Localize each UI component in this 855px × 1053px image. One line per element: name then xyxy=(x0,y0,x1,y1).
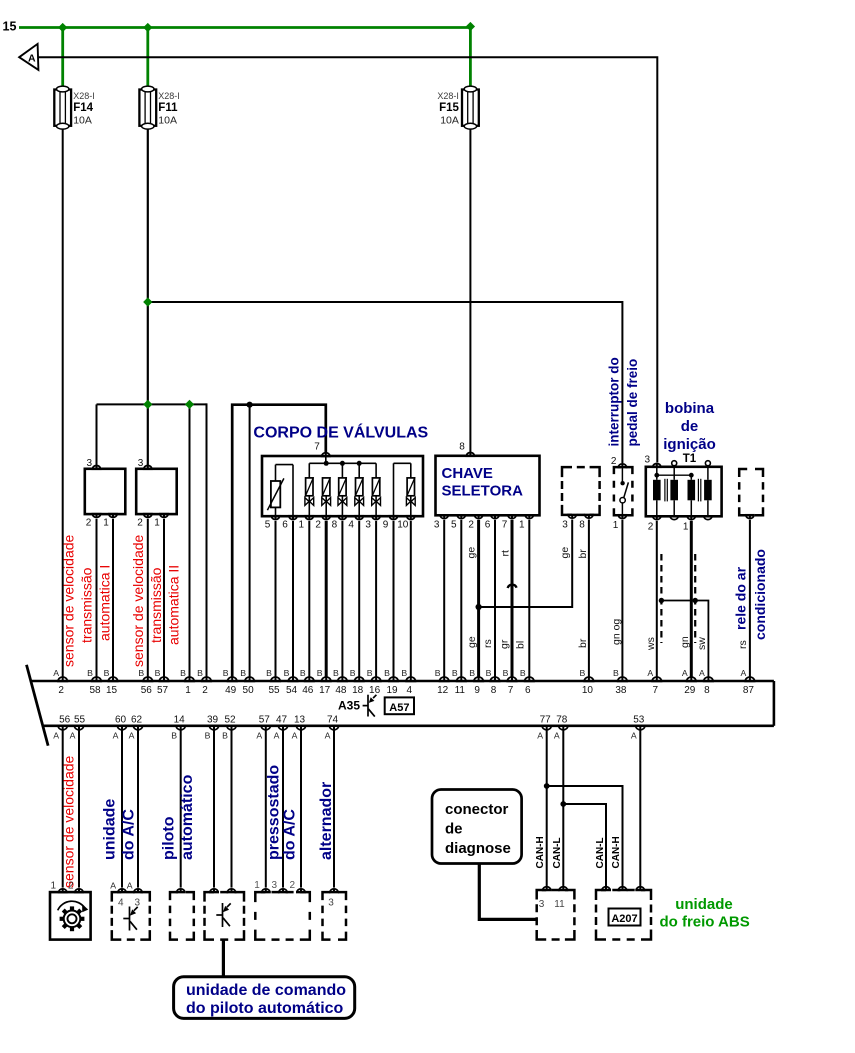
svg-text:14: 14 xyxy=(174,714,186,725)
terminal a of piloto box 2 xyxy=(210,889,218,892)
svg-text:8: 8 xyxy=(704,685,710,696)
svg-text:2: 2 xyxy=(315,520,321,531)
svg-text:A: A xyxy=(292,731,298,741)
svg-text:B: B xyxy=(435,668,441,678)
junction: bus/F11 xyxy=(143,23,152,32)
ECU pin A78 (bottom row) xyxy=(559,726,568,730)
svg-text:B: B xyxy=(266,668,272,678)
selector switch pin 3 (bottom) xyxy=(440,515,448,518)
valve body pin 1 (bottom) xyxy=(305,516,313,519)
ECU pin B16 (top row) xyxy=(372,677,381,681)
pin 1 of sensor II xyxy=(160,514,168,517)
coil pin 1 (bottom) xyxy=(687,516,695,519)
svg-text:A: A xyxy=(631,731,637,741)
wire: ECU to A/C pressure switch pin 2 xyxy=(300,731,302,888)
wire: ECU to ABS unit xyxy=(639,731,641,888)
wire: valve body pin 5 to ECU B55 xyxy=(275,521,277,677)
junction: bus/valve N2 xyxy=(324,461,329,466)
svg-text:1: 1 xyxy=(519,520,525,531)
svg-text:B: B xyxy=(223,668,229,678)
svg-text:60: 60 xyxy=(115,714,127,725)
solenoid valve 2 in valve body xyxy=(322,477,331,516)
svg-text:46: 46 xyxy=(302,685,314,696)
ECU pin B55 (top row) xyxy=(271,677,280,681)
diagnostic connector box (dashed) xyxy=(537,890,575,940)
wire: valve body pin 1 to ECU B46 xyxy=(308,521,310,677)
pin 3 of sensor I xyxy=(93,466,101,469)
svg-text:B: B xyxy=(384,668,390,678)
svg-text:unidade: unidade xyxy=(102,799,119,860)
ECU pin B17 (top row) xyxy=(322,677,331,681)
svg-text:18: 18 xyxy=(352,685,364,696)
svg-text:87: 87 xyxy=(743,685,755,696)
svg-text:5: 5 xyxy=(451,520,457,531)
ECU pin B57 (top row) xyxy=(159,677,168,681)
svg-text:2: 2 xyxy=(468,520,474,531)
wire: drop to ECU pin B1 xyxy=(189,404,191,677)
svg-text:B: B xyxy=(333,668,339,678)
fuse F14 10A X28-I xyxy=(54,86,94,129)
ECU pin A2 (top row) xyxy=(58,677,67,681)
speed sensor pin 2 xyxy=(75,889,83,892)
coil pin 3 (top) xyxy=(653,464,661,467)
ECU pin B38 (top row) xyxy=(618,677,627,681)
valve body pin 4 (bottom) xyxy=(355,516,363,519)
svg-text:F14: F14 xyxy=(73,102,93,114)
svg-text:12: 12 xyxy=(437,685,449,696)
svg-text:automatica II: automatica II xyxy=(166,565,182,645)
wire: F15 output down to selector switch pin 8 xyxy=(469,129,471,453)
svg-text:7: 7 xyxy=(508,685,514,696)
svg-text:3: 3 xyxy=(86,458,92,469)
svg-text:2: 2 xyxy=(202,685,208,696)
svg-text:3: 3 xyxy=(328,898,334,909)
connector (dashed) pins 3/8 xyxy=(562,467,600,515)
valve body pin 2 (bottom) xyxy=(322,516,330,519)
svg-text:57: 57 xyxy=(259,714,271,725)
svg-text:3: 3 xyxy=(271,880,277,891)
svg-text:B: B xyxy=(205,731,211,741)
junction: bus/valve N3 xyxy=(340,461,345,466)
valve body pin 7 (top) xyxy=(322,453,330,456)
wire: selector switch pin 5 to ECU B11 xyxy=(460,520,462,677)
unidade de comando do piloto automatico label box xyxy=(174,977,355,1019)
svg-text:7: 7 xyxy=(314,442,320,453)
ECU pin A87 (top row) xyxy=(745,677,754,681)
svg-text:B: B xyxy=(469,668,475,678)
ignition coil T1 box xyxy=(646,467,722,517)
svg-text:rt: rt xyxy=(500,550,512,556)
svg-text:B: B xyxy=(104,668,110,678)
wire: from arrow A to ignition coil pin 3 xyxy=(38,57,657,462)
svg-text:gr: gr xyxy=(499,639,511,649)
svg-text:52: 52 xyxy=(224,714,236,725)
svg-text:F15: F15 xyxy=(439,102,459,114)
selector switch pin 8 (top) xyxy=(466,453,474,456)
svg-text:17: 17 xyxy=(319,685,331,696)
svg-text:2: 2 xyxy=(58,685,64,696)
wire: valve body pin 10 to ECU B4 xyxy=(410,521,412,677)
svg-text:transmissão: transmissão xyxy=(148,567,164,643)
svg-text:A: A xyxy=(110,881,116,891)
svg-text:19: 19 xyxy=(386,685,398,696)
wire: ECU to diagnostic CAN-L xyxy=(562,731,564,888)
svg-text:A35: A35 xyxy=(338,699,360,713)
measuring symbol in piloto box xyxy=(216,903,230,927)
coil HT terminal b xyxy=(705,461,710,466)
ECU pin A13 (bottom row) xyxy=(296,726,305,730)
selector switch pin 6 (bottom) xyxy=(491,515,499,518)
valve body pin 6 (bottom) xyxy=(289,516,297,519)
svg-text:pressostado: pressostado xyxy=(266,765,283,860)
svg-text:br: br xyxy=(577,638,589,648)
junction (green): F11/sensor bus xyxy=(143,400,152,409)
pin 3 of sensor II xyxy=(144,466,152,469)
svg-text:sensor de velocidade: sensor de velocidade xyxy=(130,534,146,667)
selector switch pin 5 (bottom) xyxy=(457,515,465,518)
ECU pin B58 (top row) xyxy=(92,677,101,681)
wire: ECU to A/C unit pin 4 xyxy=(121,731,123,888)
svg-text:B: B xyxy=(171,731,177,741)
svg-text:7: 7 xyxy=(502,520,508,531)
solenoid valve 6 (pins 9-10) in valve body xyxy=(394,463,416,516)
svg-text:F11: F11 xyxy=(158,102,178,114)
wire: shield drain (sw) to ECU A8 xyxy=(661,601,708,678)
svg-text:diagnose: diagnose xyxy=(445,840,511,857)
svg-text:CAN-L: CAN-L xyxy=(595,837,606,868)
svg-text:ge: ge xyxy=(466,547,478,559)
junction CAN-H xyxy=(544,783,550,789)
svg-text:48: 48 xyxy=(335,685,347,696)
svg-text:B: B xyxy=(367,668,373,678)
svg-text:4: 4 xyxy=(118,898,124,909)
svg-text:6: 6 xyxy=(485,520,491,531)
pressure switch pin 3 xyxy=(279,889,287,892)
svg-text:58: 58 xyxy=(89,685,101,696)
valve body pin 10 (bottom) xyxy=(407,516,415,519)
wire: coil pin 1 (gn) to ECU A29 xyxy=(690,521,693,677)
wire: F14 output down to ECU pin A2 xyxy=(62,129,64,678)
svg-text:29: 29 xyxy=(684,685,696,696)
piloto automatico box 2 (dashed) xyxy=(205,892,245,940)
pin 8 of dashed connector xyxy=(585,515,593,518)
svg-text:16: 16 xyxy=(369,685,381,696)
junction: shield right xyxy=(693,598,698,603)
svg-text:15: 15 xyxy=(3,20,17,34)
measuring point symbol at A35 xyxy=(363,695,377,717)
coil HT terminal a xyxy=(672,461,677,466)
wire: ECU to A/C pressure switch pin 1 xyxy=(265,731,267,888)
ECU pin A62 (bottom row) xyxy=(133,726,142,730)
ECU pin A77 (bottom row) xyxy=(542,726,551,730)
wire: sensor I pin 2 to ECU B58 xyxy=(96,519,98,677)
svg-text:3: 3 xyxy=(562,520,568,531)
svg-text:br: br xyxy=(577,549,589,559)
svg-text:1: 1 xyxy=(154,518,160,529)
svg-text:A: A xyxy=(699,668,705,678)
connection hook symbol on wire 7 xyxy=(508,585,517,588)
wire: ECU to speed sensor pin 2 xyxy=(78,731,80,888)
conector de diagnose label box xyxy=(432,790,522,864)
ECU pin A56 (bottom row) xyxy=(58,726,67,730)
svg-text:10: 10 xyxy=(397,520,409,531)
ECU pin B4 (top row) xyxy=(406,677,415,681)
ECU A35 connector bar xyxy=(32,681,774,726)
svg-text:54: 54 xyxy=(286,685,298,696)
ECU pin B10 (top row) xyxy=(584,677,593,681)
reference arrow A (page link) xyxy=(19,44,38,70)
svg-text:B: B xyxy=(350,668,356,678)
svg-text:1: 1 xyxy=(299,520,305,531)
ECU pin A60 (bottom row) xyxy=(117,726,126,730)
valve body internal supply bus xyxy=(309,462,376,464)
svg-text:55: 55 xyxy=(268,685,280,696)
svg-text:B: B xyxy=(486,668,492,678)
svg-text:A: A xyxy=(53,731,59,741)
svg-text:CAN-H: CAN-H xyxy=(535,836,546,868)
svg-text:A: A xyxy=(113,731,119,741)
A/C unit terminal A (pin 3) xyxy=(134,889,142,892)
svg-text:53: 53 xyxy=(633,714,645,725)
valve body pin 8 (bottom) xyxy=(338,516,346,519)
wire: ECU to cruise control pin b xyxy=(231,731,233,888)
svg-text:1: 1 xyxy=(613,520,619,531)
ECU pin B19 (top row) xyxy=(389,677,398,681)
brake switch contact xyxy=(620,467,629,515)
svg-text:62: 62 xyxy=(131,714,143,725)
svg-text:B: B xyxy=(613,668,619,678)
svg-text:do A/C: do A/C xyxy=(121,809,138,860)
wire: sensor II pin 1 to ECU B57 xyxy=(163,519,165,677)
fuse F11 10A X28-I xyxy=(139,86,179,129)
ECU pin B14 (bottom row) xyxy=(176,726,185,730)
svg-text:1: 1 xyxy=(254,880,260,891)
svg-text:sw: sw xyxy=(696,637,708,650)
svg-text:X28-I: X28-I xyxy=(73,91,95,101)
svg-text:1: 1 xyxy=(103,518,109,529)
screened cable shield (dashed) left xyxy=(660,554,662,643)
connector designation A57 xyxy=(385,697,414,714)
wire: brake switch pin 1 to ECU B38 xyxy=(621,520,623,677)
svg-text:A: A xyxy=(537,731,543,741)
svg-text:B: B xyxy=(87,668,93,678)
ECU pin A7 (top row) xyxy=(652,677,661,681)
svg-text:B: B xyxy=(452,668,458,678)
svg-text:2: 2 xyxy=(611,456,617,467)
pin 2 of sensor I xyxy=(93,514,101,517)
wire: selector switch pin 3 to ECU B12 xyxy=(443,520,445,677)
wire: distribution bus to speed sensors and ECU pins 1,2 xyxy=(97,403,207,405)
svg-text:50: 50 xyxy=(243,685,255,696)
wire: selector switch pin 1 to ECU B6 xyxy=(528,520,530,677)
svg-text:74: 74 xyxy=(327,714,339,725)
ECU pin A8 (top row) xyxy=(704,677,713,681)
svg-text:gn: gn xyxy=(679,636,691,648)
svg-text:A: A xyxy=(325,731,331,741)
alternator terminal 3 xyxy=(330,889,338,892)
svg-text:SELETORA: SELETORA xyxy=(442,483,524,500)
pressostado do A/C box (dashed) xyxy=(255,892,309,940)
svg-text:6: 6 xyxy=(525,685,531,696)
svg-text:B: B xyxy=(197,668,203,678)
svg-text:8: 8 xyxy=(491,685,497,696)
svg-text:T1: T1 xyxy=(683,453,697,465)
svg-text:de: de xyxy=(681,418,699,435)
svg-text:39: 39 xyxy=(207,714,219,725)
wire: coil pin 2 (ws) to ECU A7 xyxy=(656,521,658,677)
ECU pin A53 (bottom row) xyxy=(636,726,645,730)
coil pin terminal (unlabelled) b xyxy=(704,516,712,519)
junction: bus/F14 xyxy=(58,23,67,32)
svg-text:8: 8 xyxy=(579,520,585,531)
svg-text:A: A xyxy=(70,731,76,741)
svg-text:2: 2 xyxy=(289,880,295,891)
brake switch pin 1 (bottom) xyxy=(618,515,626,518)
ECU pin A57 (bottom row) xyxy=(261,726,270,730)
wire: piloto box to cruise control unit label xyxy=(222,940,225,977)
svg-text:38: 38 xyxy=(615,685,627,696)
wire: F11 output down to sensor II pin 3 xyxy=(147,129,149,466)
wire: CAN-H branch to ABS xyxy=(547,786,623,888)
svg-text:do piloto automático: do piloto automático xyxy=(186,1000,344,1017)
svg-text:B: B xyxy=(503,668,509,678)
gear rotation arrow xyxy=(58,901,88,931)
svg-text:A: A xyxy=(129,731,135,741)
ECU pin B46 (top row) xyxy=(305,677,314,681)
ECU pin B56 (top row) xyxy=(143,677,152,681)
variable resistor (temp sender) inside valve body xyxy=(267,465,293,517)
A207 designation box xyxy=(609,909,641,926)
svg-text:A: A xyxy=(274,731,280,741)
piloto automatico connector box 1 (dashed) xyxy=(170,892,194,940)
svg-text:15: 15 xyxy=(106,685,118,696)
svg-text:9: 9 xyxy=(383,520,389,531)
junction (green): sensor bus / ECU pin 1 drop xyxy=(185,400,194,409)
svg-text:alternador: alternador xyxy=(318,782,335,860)
svg-text:57: 57 xyxy=(157,685,169,696)
svg-text:56: 56 xyxy=(59,714,71,725)
svg-text:10A: 10A xyxy=(158,115,177,127)
junction CAN-L xyxy=(560,801,566,807)
svg-text:3: 3 xyxy=(539,899,545,910)
A/C relay (rele do ar condicionado) dashed box xyxy=(739,469,763,515)
svg-text:X28-I: X28-I xyxy=(437,91,459,101)
svg-text:bl: bl xyxy=(515,641,527,649)
junction: bus/F15 corner xyxy=(466,22,475,31)
A/C unit terminal A (pin 4) xyxy=(118,889,126,892)
ABS terminal CAN-L xyxy=(602,887,610,890)
svg-text:unidade: unidade xyxy=(675,896,733,913)
solenoid valve 3 in valve body xyxy=(338,463,347,516)
coil pin 2 (bottom) xyxy=(653,516,661,519)
wire: relay (rs) to ECU A87 xyxy=(749,520,751,677)
ECU pin B9 (top row) xyxy=(474,677,483,681)
ECU pin B52 (bottom row) xyxy=(227,726,236,730)
alternador box (dashed) xyxy=(323,892,347,940)
wire: branch to brake pedal switch pin 2 xyxy=(148,302,623,463)
wire: ECU to alternator pin 3 xyxy=(333,731,335,888)
svg-text:B: B xyxy=(240,668,246,678)
wire: ECU to cruise control conn a xyxy=(180,731,182,888)
svg-text:B: B xyxy=(284,668,290,678)
ECU pin B6 (top row) xyxy=(525,677,534,681)
svg-text:2: 2 xyxy=(86,518,92,529)
svg-text:B: B xyxy=(155,668,161,678)
wire: green bus from terminal 15 xyxy=(19,26,470,29)
svg-text:A: A xyxy=(741,668,747,678)
ABS terminal (53) xyxy=(636,887,644,890)
solenoid valve 1 in valve body xyxy=(305,463,314,516)
svg-text:1: 1 xyxy=(50,881,56,892)
pin 1 of sensor I xyxy=(109,514,117,517)
wire: valve body pin 8 to ECU B48 xyxy=(341,521,343,677)
svg-text:4: 4 xyxy=(407,685,413,696)
svg-text:do A/C: do A/C xyxy=(282,809,299,860)
svg-text:A: A xyxy=(682,668,688,678)
wire: CAN-L branch to ABS xyxy=(563,804,606,888)
valve body box xyxy=(262,456,423,516)
svg-text:gn og: gn og xyxy=(611,619,623,645)
svg-text:rele do ar: rele do ar xyxy=(733,566,749,630)
junction (green): F11 wire / brake switch branch xyxy=(143,297,152,306)
svg-text:B: B xyxy=(317,668,323,678)
ECU pin B49 (top row) xyxy=(228,677,237,681)
svg-text:77: 77 xyxy=(540,714,552,725)
ECU pin B15 (top row) xyxy=(108,677,117,681)
wire: valve body pin 6 to ECU B54 xyxy=(292,521,294,677)
ECU pin B11 (top row) xyxy=(457,677,466,681)
coil pin terminal (unlabelled) xyxy=(670,516,678,519)
ECU pin B50 (top row) xyxy=(245,677,254,681)
ECU pin A47 (bottom row) xyxy=(278,726,287,730)
valve body pin 3 (bottom) xyxy=(372,516,380,519)
pin 3 of dashed connector xyxy=(568,515,576,518)
svg-text:A: A xyxy=(256,731,262,741)
svg-text:2: 2 xyxy=(137,518,143,529)
svg-text:3: 3 xyxy=(434,520,440,531)
ABS control unit box (dashed) xyxy=(596,890,651,940)
wire: valve body pin 9 to ECU B19 xyxy=(393,521,395,677)
connector bracket diagonal xyxy=(27,665,49,746)
svg-text:automático: automático xyxy=(179,774,196,860)
svg-text:10A: 10A xyxy=(73,115,92,127)
svg-text:49: 49 xyxy=(225,685,237,696)
selector switch pin 1 (bottom) xyxy=(525,515,533,518)
svg-text:A57: A57 xyxy=(389,702,409,714)
svg-text:78: 78 xyxy=(556,714,568,725)
speed sensor pin 1 xyxy=(59,889,67,892)
wire: sensor I pin 1 to ECU B15 xyxy=(112,519,114,677)
ECU pin B7 (top row) xyxy=(507,677,516,681)
svg-text:10: 10 xyxy=(582,685,594,696)
svg-text:A: A xyxy=(647,668,653,678)
svg-text:9: 9 xyxy=(474,685,480,696)
svg-text:CHAVE: CHAVE xyxy=(442,465,493,482)
svg-text:6: 6 xyxy=(282,520,288,531)
wire: green drop to fuse F14 xyxy=(61,28,64,88)
pressure switch pin 1 xyxy=(262,889,270,892)
svg-text:56: 56 xyxy=(141,685,153,696)
svg-text:B: B xyxy=(580,668,586,678)
svg-text:A207: A207 xyxy=(611,913,637,925)
svg-text:13: 13 xyxy=(294,714,306,725)
ECU pin B48 (top row) xyxy=(338,677,347,681)
svg-text:sensor de velocidade: sensor de velocidade xyxy=(61,755,77,888)
wire: selector switch pin 6 to ECU B8 xyxy=(494,520,496,677)
svg-text:11: 11 xyxy=(455,685,466,696)
diagnostic connector pin 3 xyxy=(543,887,551,890)
svg-text:de: de xyxy=(445,821,463,838)
